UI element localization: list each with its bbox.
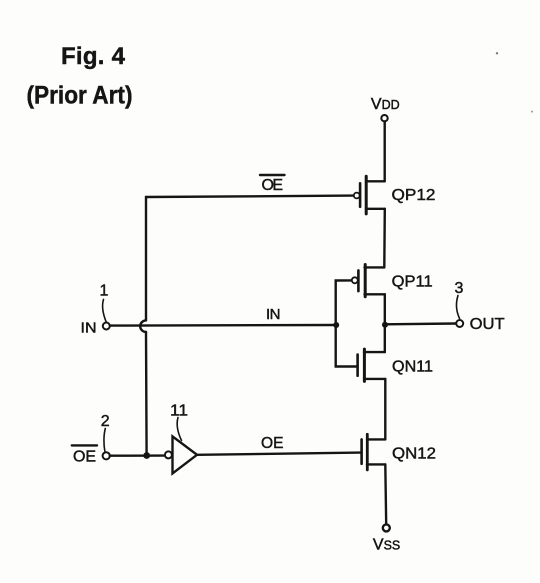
wire: OE from inverter output to QN12 gate	[197, 453, 361, 455]
wire: left vertical (OE-bar bus) upper segment	[145, 197, 147, 320]
wire: QP11 drain down to output junction and on to QN11 drain	[384, 294, 386, 352]
label OE (with overbar) at bottom-left input	[72, 445, 97, 465]
leader line for numeral 1	[103, 300, 107, 323]
svg-text:OE: OE	[262, 177, 284, 194]
speck top right	[496, 52, 498, 54]
inverter 11 triangle	[173, 436, 198, 473]
wire: OUT horizontal	[385, 322, 456, 325]
node 3: OUT terminal	[456, 320, 463, 327]
label OE (with overbar) on top wire	[260, 175, 285, 194]
svg-text:QN12: QN12	[392, 446, 436, 463]
speck right	[531, 111, 533, 113]
leader line for numeral 2	[104, 429, 105, 452]
transistor QN12	[362, 434, 386, 470]
wire: OE-bar input horizontal to inverter	[110, 454, 165, 457]
svg-text:VDD: VDD	[371, 96, 400, 113]
transistor QP12	[354, 176, 385, 214]
leader line for numeral 11	[177, 418, 181, 441]
transistor QN11	[358, 349, 386, 381]
transistor QP11	[352, 265, 385, 297]
node 2: OE-bar input terminal	[103, 452, 110, 459]
svg-text:VSS: VSS	[373, 537, 400, 554]
wire: QN11 source to QN12 drain	[384, 379, 386, 440]
wire: left vertical (OE-bar bus) lower segment	[145, 332, 148, 456]
svg-text:IN: IN	[266, 306, 281, 323]
svg-text:OE: OE	[261, 435, 284, 452]
svg-text:QP12: QP12	[392, 187, 436, 204]
wire: IN horizontal line	[110, 324, 336, 327]
wire: OE-bar from left vertical to QP12 gate bubble	[146, 196, 354, 197]
inverter 11 input bubble	[165, 451, 172, 458]
svg-text:11: 11	[170, 403, 188, 420]
node 1: IN input terminal	[103, 323, 110, 330]
wire: gate bus vertical with leads to QP11 and QN11 gates	[336, 280, 357, 366]
svg-text:OUT: OUT	[470, 316, 505, 333]
svg-text:QN11: QN11	[392, 358, 433, 375]
wire hop: left vertical jumps over IN line	[140, 320, 146, 332]
svg-text:2: 2	[101, 413, 110, 430]
wire: QN12 source to VSS	[384, 464, 387, 524]
svg-text:(Prior Art): (Prior Art)	[27, 81, 133, 109]
power VDD terminal circle	[381, 115, 387, 121]
svg-text:IN: IN	[81, 320, 97, 337]
svg-text:1: 1	[100, 283, 109, 300]
leader line for numeral 3	[457, 296, 460, 319]
svg-text:3: 3	[455, 280, 464, 297]
svg-text:Fig. 4: Fig. 4	[61, 43, 126, 70]
junction dot: output node	[382, 322, 388, 328]
svg-text:OE: OE	[73, 449, 96, 466]
junction dot: IN line to gate bus	[333, 322, 339, 328]
wire: VDD to QP12 source	[384, 122, 386, 182]
junction dot: OE-bar bus meets input wire	[143, 452, 150, 459]
svg-text:QP11: QP11	[392, 273, 433, 290]
wire: QP12 drain to QP11 source	[383, 209, 386, 268]
power VSS terminal circle	[383, 524, 390, 531]
